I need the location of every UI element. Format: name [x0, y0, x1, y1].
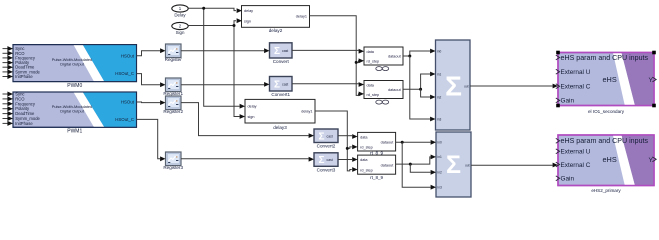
wire delay3.delay1 branch to rt4.rd_step — [346, 147, 358, 172]
svg-text:HSOut_C: HSOut_C — [115, 117, 134, 122]
svg-text:External C: External C — [561, 84, 591, 91]
wire rt3.dataout to sysgen2.in0 — [396, 140, 436, 145]
wire Register2 to Convert2 — [181, 103, 314, 138]
svg-text:delay: delay — [248, 105, 257, 109]
svg-text:External U: External U — [561, 149, 591, 156]
wire Register to Convert — [181, 48, 270, 53]
Xilinx Convert block Convert3 — [314, 153, 338, 173]
svg-text:Gain: Gain — [561, 176, 575, 183]
svg-text:rd_step: rd_step — [367, 93, 380, 97]
rate transition block rt3 — [358, 132, 396, 155]
wire Delay branch to delay3.delay — [202, 7, 245, 109]
wire PWM1.HSOut to Register2 — [137, 100, 166, 105]
svg-text:Digital Output: Digital Output — [60, 61, 84, 66]
svg-text:cast: cast — [327, 134, 333, 138]
subsystem delay3 — [245, 99, 315, 129]
svg-text:HSOut: HSOut — [121, 100, 135, 105]
svg-text:data: data — [367, 50, 375, 54]
subsystem PWM1 (Pulse-Width-Modulated Digital Output) — [13, 92, 137, 135]
Xilinx Register block Register1 — [163, 78, 183, 96]
wire rt4.dataout branch to sysgen2.in2 — [410, 164, 436, 175]
Xilinx Convert block Convert — [270, 43, 293, 64]
wire Convert3 to rt4.data — [338, 157, 358, 162]
svg-text:rd_step: rd_step — [367, 59, 380, 63]
svg-text:out: out — [464, 84, 469, 88]
svg-text:cast: cast — [327, 158, 333, 162]
wire rt1.dataout branch to sysgen1.in3 — [410, 56, 436, 121]
eHS solver block eHS2_primary — [556, 135, 656, 193]
svg-text:Y: Y — [649, 77, 654, 84]
Xilinx System Generator block sysgen1 — [436, 40, 471, 130]
svg-text:InitPhase: InitPhase — [15, 121, 33, 126]
wire PWM1.HSOut_C to Register3 — [137, 119, 166, 161]
svg-text:dataout: dataout — [381, 163, 395, 167]
wire rt1.dataout to sysgen1.in0 — [403, 49, 436, 58]
svg-text:in2: in2 — [438, 171, 442, 175]
svg-text:delay1: delay1 — [296, 14, 307, 18]
svg-text:in2: in2 — [437, 95, 441, 99]
svg-text:Register2: Register2 — [163, 109, 183, 114]
svg-text:Convert2: Convert2 — [317, 144, 336, 149]
svg-text:HSOut_C: HSOut_C — [115, 71, 134, 76]
wire rt2.dataout to sysgen1.in1 — [403, 72, 436, 91]
svg-text:Convert: Convert — [273, 59, 290, 64]
svg-text:Y: Y — [649, 157, 654, 164]
svg-text:Σ: Σ — [318, 131, 324, 142]
Xilinx System Generator block sysgen2 — [436, 132, 471, 197]
Xilinx Convert block Convert1 — [270, 77, 293, 98]
rate transition block rt1 — [364, 47, 403, 71]
wire Convert2 to rt3.data — [338, 134, 358, 139]
svg-text:Convert3: Convert3 — [317, 167, 336, 172]
wire rt2.dataout branch to sysgen1.in2 — [421, 89, 436, 99]
svg-text:data: data — [367, 84, 375, 88]
svg-text:in3: in3 — [437, 117, 441, 121]
svg-text:sign: sign — [244, 19, 251, 23]
svg-text:out: out — [465, 164, 470, 168]
svg-text:Delay: Delay — [174, 13, 186, 18]
Xilinx Register block Register2 — [163, 96, 183, 114]
Xilinx Register block Register3 — [163, 152, 183, 170]
svg-text:PWM0: PWM0 — [67, 83, 82, 89]
svg-text:rt_8_9: rt_8_9 — [370, 175, 383, 180]
svg-text:eHS: eHS — [603, 155, 617, 164]
wire delay2.delay1 to rt1.rd_step — [310, 16, 365, 63]
svg-text:cast: cast — [282, 49, 288, 53]
wire delay3.delay1 to rt3.rd_step — [315, 111, 358, 149]
Xilinx Convert block Convert2 — [314, 129, 338, 149]
svg-text:in1: in1 — [437, 72, 441, 76]
svg-text:dataout: dataout — [388, 55, 402, 59]
PWM0 input port stubs — [3, 46, 14, 79]
svg-text:in3: in3 — [438, 186, 442, 190]
svg-text:Σ: Σ — [318, 155, 324, 166]
svg-text:in0: in0 — [437, 49, 441, 53]
wire sysgen1.out to el_IO1_secondary External C — [470, 84, 558, 89]
subsystem PWM0 (Pulse-Width-Modulated Digital Output) — [13, 45, 137, 89]
wire Sign branch to delay3.sign — [233, 24, 246, 119]
subsystem delay2 — [242, 6, 310, 33]
svg-text:delay2: delay2 — [269, 28, 283, 33]
svg-text:Register3: Register3 — [163, 165, 183, 170]
svg-text:Σ: Σ — [274, 46, 280, 57]
svg-text:Gain: Gain — [561, 98, 575, 105]
wire Sign to delay2.sign — [188, 18, 242, 25]
svg-text:delay1: delay1 — [301, 110, 312, 114]
svg-text:Convert1: Convert1 — [271, 92, 290, 97]
svg-text:delay: delay — [244, 9, 253, 13]
wire Delay to delay2.delay — [189, 8, 243, 13]
svg-text:Sign: Sign — [176, 30, 185, 35]
wire Register1 to Convert1 — [181, 82, 270, 87]
svg-text:in0: in0 — [438, 141, 442, 145]
rate transition block rt4 — [358, 155, 396, 180]
PWM1 input port stubs — [3, 92, 14, 126]
wire Convert1 to rt2.data — [292, 82, 364, 87]
svg-text:eHS param and CPU inputs: eHS param and CPU inputs — [561, 54, 649, 62]
svg-text:Σ: Σ — [446, 151, 461, 179]
svg-text:eHS: eHS — [603, 75, 617, 84]
eHS solver block el IO1_secondary — [556, 51, 656, 114]
wire rt4.dataout to sysgen2.in1 — [396, 155, 436, 166]
svg-text:Σ: Σ — [274, 79, 280, 90]
svg-text:el IO1_secondary: el IO1_secondary — [588, 109, 625, 114]
inport Delay — [172, 5, 188, 18]
svg-text:Register: Register — [165, 57, 183, 62]
svg-text:InitPhase: InitPhase — [15, 74, 33, 79]
svg-text:rd_step: rd_step — [360, 169, 373, 173]
svg-text:dataout: dataout — [381, 140, 395, 144]
wire Register3 to Convert3 — [181, 157, 314, 162]
svg-text:rd_step: rd_step — [360, 145, 373, 149]
svg-text:Digital Output: Digital Output — [60, 109, 84, 114]
wire Convert to rt1.data — [292, 49, 364, 54]
Xilinx Register block Register — [165, 44, 183, 62]
wire PWM0.HSOut to Register — [137, 48, 166, 56]
inport Sign — [172, 22, 188, 35]
svg-text:dataout: dataout — [388, 88, 402, 92]
svg-text:Register1: Register1 — [163, 91, 183, 96]
wire sysgen2.out to eHS2_primary External C — [471, 163, 558, 168]
svg-text:sign: sign — [248, 115, 255, 119]
svg-text:delay3: delay3 — [273, 125, 287, 130]
svg-text:External U: External U — [561, 69, 591, 76]
svg-text:cast: cast — [282, 82, 288, 86]
svg-text:PWM1: PWM1 — [67, 129, 82, 135]
wire PWM0.HSOut_C to Register1 — [137, 74, 166, 88]
wire delay2.delay1 branch to rt2.rd_step — [355, 61, 364, 96]
svg-text:HSOut: HSOut — [121, 53, 135, 58]
svg-text:Σ: Σ — [445, 70, 462, 101]
wire rt3.dataout branch to sysgen2.in3 — [402, 142, 436, 189]
svg-text:data: data — [360, 135, 368, 139]
svg-text:eHS param and CPU inputs: eHS param and CPU inputs — [561, 137, 649, 145]
svg-text:eHS2_primary: eHS2_primary — [591, 188, 621, 193]
svg-text:in1: in1 — [438, 155, 442, 159]
svg-text:External C: External C — [561, 162, 591, 169]
rate transition block rt2 — [364, 81, 403, 105]
svg-text:data: data — [360, 158, 368, 162]
